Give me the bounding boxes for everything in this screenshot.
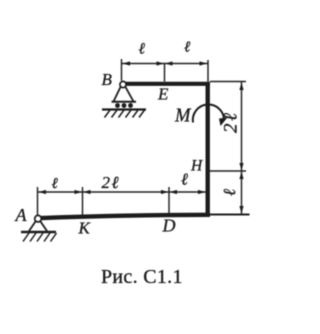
svg-text:H: H xyxy=(190,158,203,175)
svg-text:ℓ: ℓ xyxy=(139,41,146,58)
svg-text:ℓ: ℓ xyxy=(184,40,190,56)
svg-text:B: B xyxy=(102,70,113,89)
svg-text:M: M xyxy=(174,105,192,127)
svg-text:ℓ: ℓ xyxy=(181,170,188,189)
svg-text:D: D xyxy=(162,216,176,236)
svg-text:A: A xyxy=(15,205,28,225)
svg-text:Рис. С1.1: Рис. С1.1 xyxy=(101,266,183,288)
svg-text:2ℓ: 2ℓ xyxy=(102,173,121,192)
svg-text:2ℓ: 2ℓ xyxy=(221,111,242,133)
svg-text:ℓ: ℓ xyxy=(52,176,58,192)
svg-text:E: E xyxy=(157,85,169,104)
svg-text:ℓ: ℓ xyxy=(220,189,239,196)
svg-text:K: K xyxy=(78,219,92,238)
